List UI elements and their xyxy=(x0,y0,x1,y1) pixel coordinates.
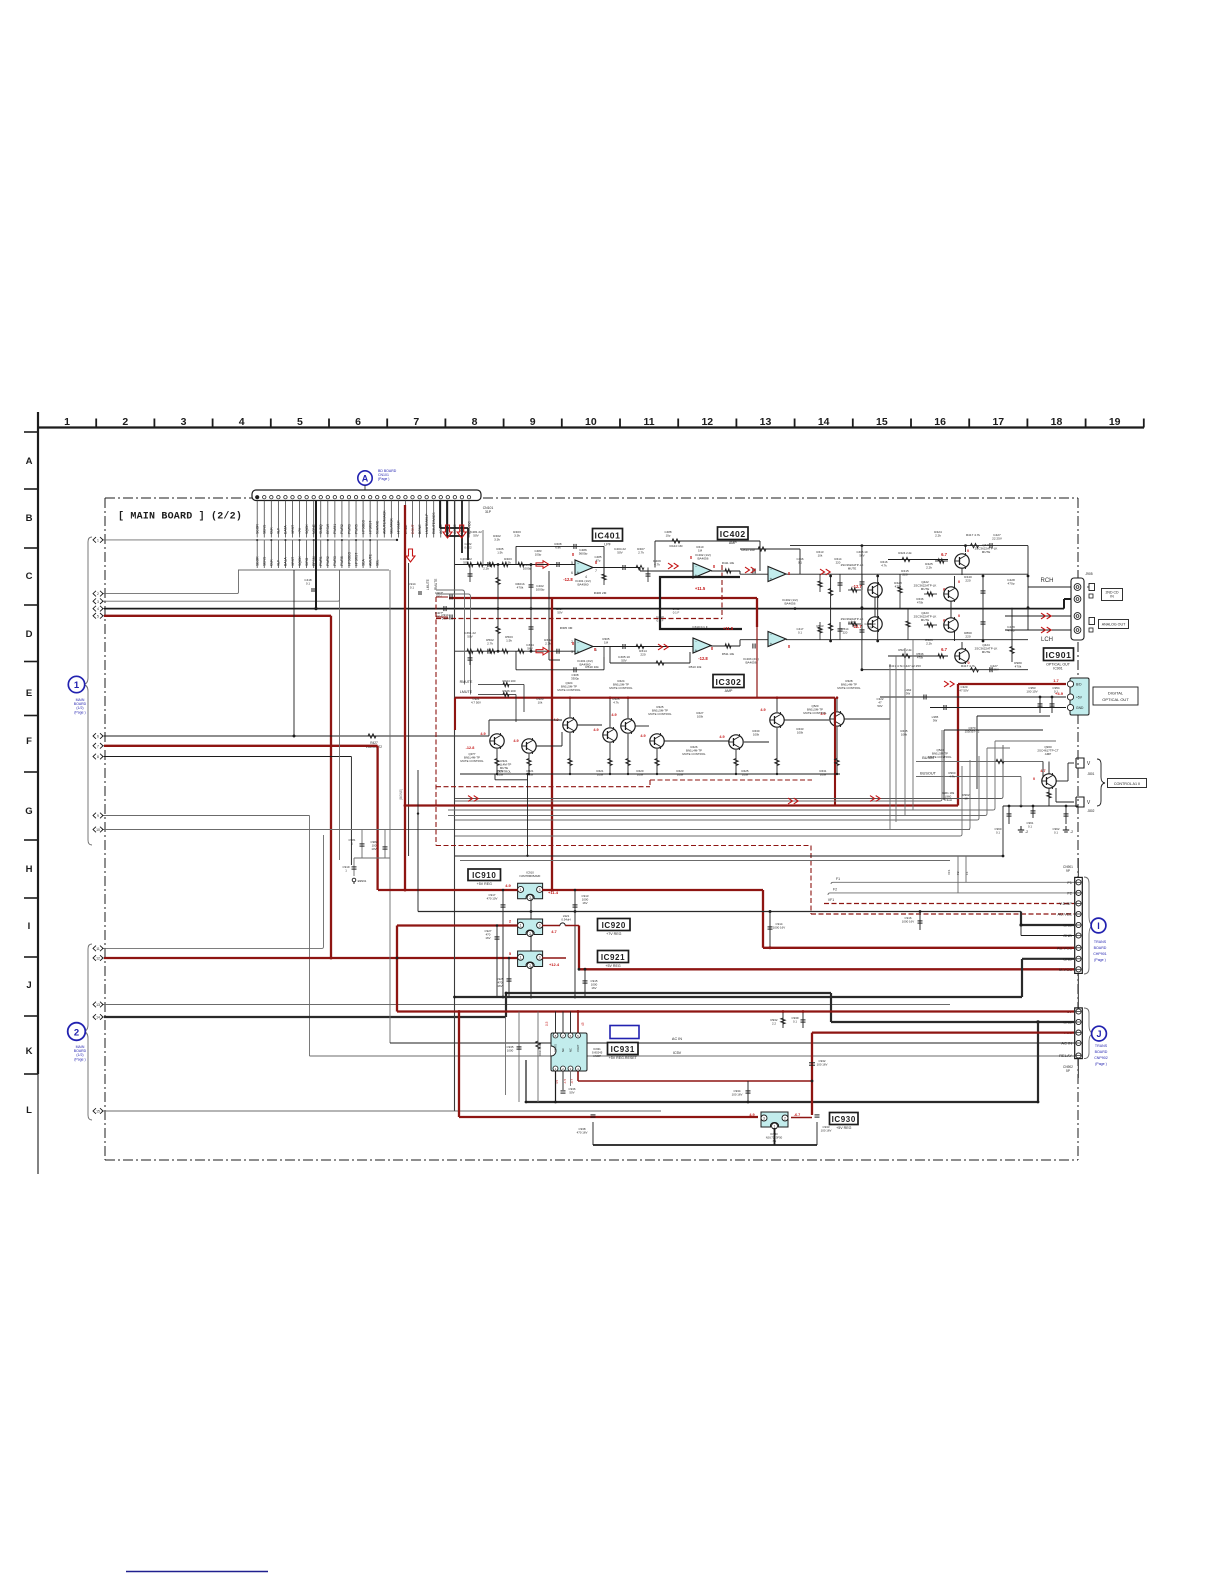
svg-text:F: F xyxy=(26,736,32,747)
CN901 designator xyxy=(1063,865,1073,873)
svg-text:IC931: IC931 xyxy=(611,1045,635,1054)
svg-text:50V: 50V xyxy=(617,551,623,555)
svg-text:100k: 100k xyxy=(637,773,644,777)
wire net 9 xyxy=(104,815,310,817)
voltage label u10 xyxy=(711,646,714,651)
svg-text:CLK: CLK xyxy=(270,527,274,534)
svg-text:0.1: 0.1 xyxy=(410,586,415,590)
brace group 2 xyxy=(83,944,92,1120)
wire red riser x552 xyxy=(551,598,553,890)
voltage IC920 xyxy=(509,919,558,935)
component labels extra xyxy=(464,530,923,737)
svg-text:D: D xyxy=(26,629,33,640)
CN101 designator xyxy=(483,506,494,514)
svg-text:7: 7 xyxy=(97,744,99,748)
Q960 bias xyxy=(942,771,1051,802)
op-amp IC401 2/2 xyxy=(575,639,593,654)
svg-text:2.7k: 2.7k xyxy=(638,551,644,555)
transistor Q960 xyxy=(1042,773,1057,789)
svg-text:14: 14 xyxy=(818,416,830,428)
connector CN902 body xyxy=(1075,1008,1083,1059)
signal arrow 3 xyxy=(820,569,830,575)
page arrow node 10 xyxy=(93,827,106,833)
svg-text:MUTE CONTROL: MUTE CONTROL xyxy=(557,688,581,692)
svg-text:A: A xyxy=(26,456,33,467)
wire base bot Q424 xyxy=(888,648,948,658)
svg-text:R411 10k: R411 10k xyxy=(722,561,735,565)
wire riser x351 xyxy=(350,757,352,866)
cap stubs row D xyxy=(468,647,605,666)
svg-text:45: 45 xyxy=(581,1022,585,1026)
svg-text:MUTE: MUTE xyxy=(982,650,991,654)
IC901 subtitle xyxy=(1046,663,1071,671)
wire red link x757-698 xyxy=(756,627,758,698)
CN902 designator xyxy=(1063,1065,1073,1073)
caps at ctrl gnd xyxy=(995,806,1069,835)
svg-text:100k: 100k xyxy=(697,715,704,719)
wire red y1081 xyxy=(578,1080,812,1082)
svg-text:R510 10k: R510 10k xyxy=(689,665,702,669)
bus arrow mid xyxy=(788,798,798,804)
svg-text:MUTE CONTROL: MUTE CONTROL xyxy=(803,711,827,715)
svg-text:R305 3M: R305 3M xyxy=(560,626,573,630)
svg-text:3.3uH: 3.3uH xyxy=(944,798,952,802)
svg-text:-2: -2 xyxy=(1025,830,1028,834)
svg-text:3: 3 xyxy=(97,600,99,604)
wire red IC930 in xyxy=(459,1116,758,1118)
wire IC930 out rail xyxy=(593,1122,817,1145)
IC901 optical connector body xyxy=(1070,678,1089,715)
title MAIN BOARD (2/2) xyxy=(118,511,242,523)
IC921 box xyxy=(598,951,629,969)
svg-text:0.1: 0.1 xyxy=(996,831,1000,835)
TRANS BOARD CNP902 note xyxy=(1094,1044,1108,1066)
svg-text:220: 220 xyxy=(640,653,645,657)
wire red IC930 link xyxy=(791,1117,812,1119)
IC931 pin risers xyxy=(556,1012,571,1034)
wire riser x1028 xyxy=(1027,546,1030,630)
CN902 brace xyxy=(1084,1008,1093,1059)
circled 1 MAIN BOARD ref xyxy=(68,676,86,714)
svg-text:+7V: +7V xyxy=(298,527,302,534)
svg-text:BGNE: BGNE xyxy=(418,524,422,534)
component glyphs rows xyxy=(467,562,644,654)
IC921 pin2 drop xyxy=(530,967,532,998)
svg-text:100p: 100p xyxy=(535,553,542,557)
svg-text:OPTICAL OUT: OPTICAL OUT xyxy=(1102,697,1129,702)
IC931 part label xyxy=(592,1047,603,1058)
svg-text:MUTE CONTROL: MUTE CONTROL xyxy=(837,686,861,690)
svg-text:2.2: 2.2 xyxy=(772,1022,776,1026)
wire red optical feed xyxy=(958,683,1066,685)
capacitor C907 cluster xyxy=(435,591,452,620)
voltage optical 4.9 xyxy=(1055,691,1064,696)
svg-text:SEL: SEL xyxy=(376,559,380,566)
svg-text:GND: GND xyxy=(1063,933,1072,938)
page arrow node 13 xyxy=(93,1002,106,1008)
svg-text:10k: 10k xyxy=(818,554,823,558)
svg-text:(Page ): (Page ) xyxy=(74,710,85,714)
svg-text:AMUTE: AMUTE xyxy=(368,553,372,566)
svg-text:4: 4 xyxy=(97,607,99,611)
transistor Q424 xyxy=(868,582,883,598)
wire AC IN line xyxy=(390,1042,1074,1044)
bus riser x896 xyxy=(895,656,897,822)
svg-text:1000 16V: 1000 16V xyxy=(902,920,914,924)
junction dots xyxy=(293,607,1040,1103)
svg-text:4.9: 4.9 xyxy=(513,739,518,743)
svg-text:R424 2.2k: R424 2.2k xyxy=(898,551,912,555)
svg-text:2: 2 xyxy=(97,592,99,596)
wire red riser x578 bot xyxy=(577,1069,579,1082)
wire NONE pin thick xyxy=(314,500,317,610)
IC930 regulator xyxy=(761,1112,788,1129)
svg-text:MUTE: MUTE xyxy=(921,618,930,622)
wire base top Q421 xyxy=(888,551,948,562)
svg-text:NC: NC xyxy=(569,1048,573,1052)
svg-text:0.1 F: 0.1 F xyxy=(673,611,680,615)
bus riser x905 xyxy=(904,648,906,816)
svg-text:SENS: SENS xyxy=(263,524,267,534)
svg-text:3: 3 xyxy=(571,650,573,654)
transistor stubs 402 xyxy=(875,569,962,649)
wire feedback upper xyxy=(516,544,604,579)
bus line y836 xyxy=(455,766,962,836)
arrow optical feed xyxy=(944,681,954,687)
wire gnd riser x526 xyxy=(525,1060,527,1102)
svg-text:2: 2 xyxy=(784,1116,786,1120)
svg-text:15: 15 xyxy=(876,416,888,428)
svg-text:9: 9 xyxy=(530,416,536,428)
svg-text:470 16V: 470 16V xyxy=(577,1131,588,1135)
wire red riser x578 top xyxy=(577,1012,579,1034)
wire optical GND xyxy=(930,707,1066,709)
svg-text:0.54uH: 0.54uH xyxy=(561,918,570,922)
capacitor C913 xyxy=(573,889,589,999)
svg-text:MUTE CONTROL: MUTE CONTROL xyxy=(460,759,484,763)
svg-text:10V: 10V xyxy=(371,847,376,851)
svg-text:16V: 16V xyxy=(485,936,490,940)
wire bias bottom y669 xyxy=(862,667,1028,672)
svg-text:3300p: 3300p xyxy=(571,677,579,681)
brace control xyxy=(1097,759,1105,806)
svg-text:R417 4.7k: R417 4.7k xyxy=(966,533,981,537)
wire red drop x763 xyxy=(762,890,764,948)
op-amp IC402 1/2 xyxy=(693,563,711,578)
IC930 box xyxy=(830,1113,859,1131)
transistor labels 402 xyxy=(841,543,998,654)
svg-text:1M: 1M xyxy=(698,549,703,553)
page arrow node 3 xyxy=(93,598,106,604)
label R427 xyxy=(366,741,382,749)
voltage IC921 xyxy=(509,951,560,967)
wire opamp row lower xyxy=(455,640,1028,652)
svg-text:15: 15 xyxy=(96,1110,100,1114)
IC920 regulator xyxy=(518,919,543,937)
svg-text:16V: 16V xyxy=(591,986,596,990)
voltage label u4 xyxy=(852,584,862,589)
svg-text:100k: 100k xyxy=(753,733,760,737)
wire lmute curve xyxy=(436,594,471,695)
svg-text:13: 13 xyxy=(760,416,772,428)
svg-text:HP3OEG: HP3OEG xyxy=(347,552,351,566)
svg-text:PWR2: PWR2 xyxy=(326,556,330,566)
CN101 second row labels xyxy=(256,539,380,568)
svg-text:RA11 10k: RA11 10k xyxy=(741,548,755,552)
svg-text:L: L xyxy=(26,1105,32,1116)
svg-text:PWR3: PWR3 xyxy=(347,524,351,534)
svg-text:+: + xyxy=(577,649,580,654)
svg-text:(Page ): (Page ) xyxy=(378,477,389,481)
svg-text:470p: 470p xyxy=(1008,582,1015,586)
optical connector pins xyxy=(1067,681,1084,711)
arrow J905 pin4 xyxy=(1041,627,1051,633)
svg-text:+: + xyxy=(770,641,773,646)
svg-text:BUSOUT: BUSOUT xyxy=(920,772,937,776)
capacitor C932 xyxy=(809,1059,827,1067)
svg-text:BA4056: BA4056 xyxy=(697,557,708,561)
svg-text:6: 6 xyxy=(97,735,99,739)
page arrow node 8 xyxy=(93,754,106,760)
svg-text:4.9: 4.9 xyxy=(505,883,511,888)
svg-text:100 16V: 100 16V xyxy=(817,1063,828,1067)
svg-text:+4.9: +4.9 xyxy=(1055,691,1064,696)
wire gnd riser x831 xyxy=(830,993,832,1022)
svg-text:3.3k: 3.3k xyxy=(514,534,520,538)
svg-text:220: 220 xyxy=(836,561,841,565)
svg-text:100k: 100k xyxy=(901,733,908,737)
capacitor C934 xyxy=(732,1081,751,1102)
wire nest x944 xyxy=(944,730,1043,800)
svg-text:J: J xyxy=(1096,1029,1101,1039)
page arrow node 5 xyxy=(93,613,106,619)
transistor Q320 xyxy=(490,733,505,749)
wire IC920 in red xyxy=(397,924,518,926)
red dashed y903 xyxy=(824,903,1074,905)
ground ctrl 1 xyxy=(1018,826,1028,834)
svg-text:10p: 10p xyxy=(666,534,671,538)
wire y806 ctrl xyxy=(1003,805,1078,808)
brace group 1 xyxy=(83,537,92,845)
svg-text:SEOR: SEOR xyxy=(256,556,260,566)
svg-text:BUSIN: BUSIN xyxy=(922,756,934,760)
svg-text:IC401: IC401 xyxy=(595,530,621,540)
wire net 13 xyxy=(104,1004,950,1006)
wire risers ic401 xyxy=(482,530,484,565)
op-amp IC402 4 xyxy=(768,632,786,647)
svg-text:(BGNE): (BGNE) xyxy=(399,789,403,800)
wire 402 frame xyxy=(549,571,560,660)
wire GND pin8 thick xyxy=(1022,959,1074,997)
svg-text:J801: J801 xyxy=(1088,772,1095,776)
svg-text:470k: 470k xyxy=(917,656,924,660)
svg-text:0.022: 0.022 xyxy=(464,546,472,550)
svg-text:LMUTE: LMUTE xyxy=(426,579,430,590)
wire feedback 402b xyxy=(740,547,800,574)
svg-text:SEL/MICK: SEL/MICK xyxy=(390,517,394,534)
CN101 pin stub wires xyxy=(257,501,469,538)
label LCH xyxy=(1041,637,1053,643)
IC920 box xyxy=(598,919,631,937)
svg-text:0: 0 xyxy=(958,614,960,618)
svg-text:3: 3 xyxy=(539,924,541,928)
wire net 2 xyxy=(104,570,239,594)
optical labels xyxy=(889,664,1060,723)
svg-text:0.1: 0.1 xyxy=(1054,831,1058,835)
IC931 pin drops xyxy=(556,1071,571,1102)
connector J802 xyxy=(1076,797,1095,813)
connector J905 pins xyxy=(1074,584,1081,634)
wire red riser x397 xyxy=(396,926,398,1012)
svg-text:-2: -2 xyxy=(1070,830,1073,834)
wire net 3 xyxy=(104,570,340,601)
wire J802 link xyxy=(1056,788,1074,802)
transistor Q323 xyxy=(603,727,618,743)
CN902 pins and labels xyxy=(1059,1009,1081,1058)
wire nest x977 xyxy=(977,716,1050,789)
transistor labels 302 xyxy=(460,679,979,774)
red dashed y618 xyxy=(436,618,722,620)
voltage label u1 xyxy=(698,656,708,661)
plug symbol 2nd cd xyxy=(1087,584,1095,599)
svg-text:IC901: IC901 xyxy=(1053,667,1063,671)
Q960 voltages xyxy=(1033,769,1046,781)
transistor Q328 xyxy=(830,711,845,727)
circled J TRANS BOARD xyxy=(1092,1026,1107,1041)
svg-text:LCH: LCH xyxy=(1041,637,1053,643)
wire nest links xyxy=(942,730,1056,748)
collector links mid xyxy=(954,576,956,641)
wire riser x294 xyxy=(293,570,295,736)
wire y856 xyxy=(455,806,1003,856)
resistor labels 302 xyxy=(497,769,827,777)
wire opamp row upper xyxy=(455,565,1028,575)
page arrow node 6 xyxy=(93,733,106,739)
svg-text:CNP902: CNP902 xyxy=(1094,1056,1108,1060)
svg-text:5P: 5P xyxy=(1066,1069,1070,1073)
svg-text:50V: 50V xyxy=(621,659,627,663)
capacitor C938 xyxy=(577,1115,596,1135)
svg-text:IC402: IC402 xyxy=(720,529,746,539)
voltage label u5 xyxy=(852,624,862,629)
svg-text:+5V REG: +5V REG xyxy=(605,964,620,968)
svg-text:100 16V: 100 16V xyxy=(732,1093,743,1097)
voltage label u2 xyxy=(695,586,706,591)
svg-text:IC5V: IC5V xyxy=(673,1051,682,1055)
svg-text:K: K xyxy=(26,1046,33,1057)
svg-text:18: 18 xyxy=(1051,416,1063,428)
svg-text:IC930: IC930 xyxy=(832,1115,856,1124)
svg-text:+11.4: +11.4 xyxy=(548,890,559,895)
svg-text:MUTE: MUTE xyxy=(848,567,857,571)
svg-text:5: 5 xyxy=(297,416,303,428)
wire red riser x377 xyxy=(376,746,378,890)
svg-text:50A/MIC: 50A/MIC xyxy=(376,520,380,534)
wire bias top y546 xyxy=(790,543,1028,552)
wire LOUT step xyxy=(461,500,463,553)
label VF1 xyxy=(828,898,834,902)
svg-text:RFSW: RFSW xyxy=(326,523,330,534)
svg-text:DATA: DATA xyxy=(284,525,288,534)
svg-text:2: 2 xyxy=(74,1027,79,1038)
svg-text:0: 0 xyxy=(967,661,969,665)
resistor drops 302 xyxy=(460,727,840,775)
connector CN101 pins xyxy=(256,496,471,499)
svg-text:-12.8: -12.8 xyxy=(698,656,708,661)
wire feedback lower xyxy=(610,647,702,670)
CN inter vertical xyxy=(1077,858,1079,1078)
svg-text:SUBQ: SUBQ xyxy=(319,524,323,534)
wire F1 xyxy=(831,877,1074,884)
transistor Q322 xyxy=(563,717,578,733)
wire net 1 xyxy=(104,539,398,541)
voltage label u9 xyxy=(594,647,597,652)
wire ROUT step xyxy=(447,500,462,536)
svg-text:BOARD: BOARD xyxy=(1095,1050,1108,1054)
svg-text:GND: GND xyxy=(1063,1020,1072,1025)
svg-text:LMUTE/MILP: LMUTE/MILP xyxy=(425,513,429,534)
wire red bus y805 xyxy=(405,804,958,806)
transistor Q325 xyxy=(650,733,665,749)
svg-text:+5V REG: +5V REG xyxy=(477,882,492,886)
svg-text:PWR5: PWR5 xyxy=(340,556,344,566)
wire riser x861 xyxy=(861,546,864,672)
svg-text:13: 13 xyxy=(96,1003,100,1007)
voltage label u14 xyxy=(572,641,575,646)
wire riser x309 xyxy=(309,816,311,1057)
svg-text:100k: 100k xyxy=(797,731,804,735)
voltage label u3 xyxy=(723,626,734,631)
svg-text:+5V: +5V xyxy=(1076,695,1083,699)
bias stubs 402 xyxy=(818,574,910,640)
resistor R932 xyxy=(771,1010,786,1028)
capacitor C933 xyxy=(815,1115,832,1133)
svg-text:1000p: 1000p xyxy=(523,567,532,571)
cap stubs row C xyxy=(468,565,651,586)
svg-text:0.1: 0.1 xyxy=(798,561,802,565)
svg-text:50V: 50V xyxy=(473,534,479,538)
label J905 xyxy=(1085,572,1092,576)
svg-text:IC920: IC920 xyxy=(602,921,626,930)
svg-text:-1.5: -1.5 xyxy=(563,1078,567,1084)
risers F1F2 xyxy=(947,856,969,893)
svg-text:DIGITAL: DIGITAL xyxy=(1108,690,1124,695)
svg-text:+11.5: +11.5 xyxy=(695,586,706,591)
wire net 11 xyxy=(104,835,324,948)
svg-text:3W: 3W xyxy=(906,692,911,696)
svg-text:REF/S: REF/S xyxy=(554,1044,558,1052)
capacitor C914 xyxy=(768,912,786,950)
svg-text:F1: F1 xyxy=(965,871,969,875)
svg-text:1.7: 1.7 xyxy=(1053,678,1059,683)
svg-text:11: 11 xyxy=(96,947,100,951)
wire riser x339 xyxy=(339,570,341,860)
svg-text:50V: 50V xyxy=(859,554,864,558)
transistor Q422 xyxy=(944,617,959,633)
TRANS BOARD CHP901 note xyxy=(1093,940,1107,962)
caps C981 C982 xyxy=(349,830,390,859)
svg-text:17: 17 xyxy=(992,416,1004,428)
svg-text:470k: 470k xyxy=(917,601,924,605)
wire red riser x331 xyxy=(330,616,332,958)
bus line y860 xyxy=(460,860,950,862)
BD BOARD CN101 note xyxy=(378,469,397,481)
bus line y815 xyxy=(448,748,987,816)
svg-text:3: 3 xyxy=(539,888,541,892)
page arrow node 1 xyxy=(93,537,106,543)
IC921 regulator xyxy=(518,951,543,969)
label LMUTE rot xyxy=(426,579,438,590)
